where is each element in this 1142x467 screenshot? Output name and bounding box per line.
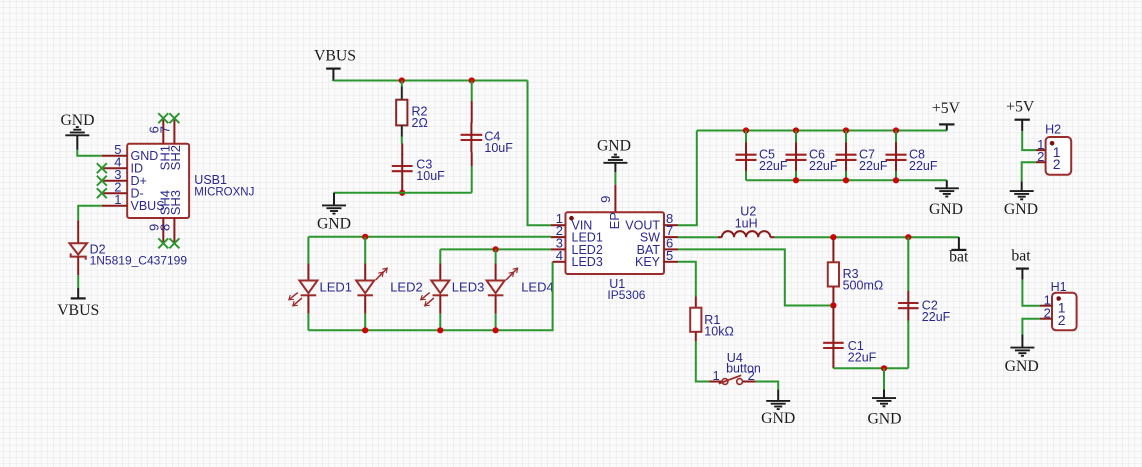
LED3 label — [452, 279, 485, 294]
H1 pin 2 — [1040, 305, 1066, 327]
U1 reference label — [607, 277, 645, 302]
node junction LED3-bottom — [437, 327, 443, 333]
H2 pin 2 — [1036, 149, 1061, 172]
capacitor C8 — [886, 131, 907, 181]
U1 pin 2 (LED1) — [551, 223, 566, 238]
node junction LED2-top — [362, 234, 368, 240]
svg-text:9: 9 — [598, 196, 613, 203]
node junction C4-top — [469, 77, 475, 83]
node junction C8-top — [893, 127, 899, 133]
svg-text:1: 1 — [712, 368, 719, 383]
resistor R3 — [828, 239, 839, 306]
USB1 pin 1 (VBUS) — [102, 192, 127, 207]
svg-text:500mΩ: 500mΩ — [843, 279, 884, 293]
U1 pin 9 (EP) — [598, 185, 616, 213]
ground GND (under H1) — [1005, 335, 1039, 375]
connector H2 body — [1046, 137, 1072, 175]
svg-text:SH3: SH3 — [168, 190, 183, 215]
switch U4 button — [709, 375, 756, 384]
svg-text:5: 5 — [666, 248, 673, 263]
wire SW to inductor — [678, 236, 718, 238]
wire H2 pin 2 to ground — [1022, 162, 1036, 181]
U1 pin 1 (VIN) — [551, 211, 566, 226]
U1 pin 4 (LED3) — [553, 248, 566, 263]
wire LED2 bottom drop — [364, 314, 366, 331]
wire LED4 top drop — [495, 249, 497, 263]
wire USB1 pin1 to diode D2 — [78, 206, 102, 221]
D2 labels — [90, 243, 188, 268]
svg-text:EP: EP — [607, 212, 622, 229]
svg-text:LED3: LED3 — [572, 255, 603, 269]
svg-text:KEY: KEY — [635, 255, 661, 269]
wire LED3 top drop — [439, 249, 441, 263]
capacitor C2 — [898, 237, 919, 368]
node junction C3-bottom — [399, 190, 405, 196]
svg-text:7: 7 — [158, 126, 173, 133]
ground GND (under C3) — [317, 193, 351, 233]
H1 reference label — [1051, 280, 1067, 294]
LED1 label — [320, 279, 353, 294]
wire D2 to VBUS flag — [77, 275, 79, 288]
diode D2 (schottky) — [69, 220, 87, 275]
svg-text:VBUS: VBUS — [57, 302, 99, 319]
net port bat (rail end) — [949, 237, 969, 265]
LED LED3 — [421, 264, 450, 314]
svg-text:10uF: 10uF — [484, 141, 513, 155]
wire LED1 top drop — [307, 237, 309, 264]
wire LED2 top drop — [364, 237, 366, 264]
ground GND (caps row) — [929, 180, 963, 218]
capacitor C6 — [786, 131, 807, 181]
wire LED4 bottom drop — [495, 314, 497, 331]
USB1 pin 4 (ID) — [102, 155, 127, 170]
U1 pin 7 (SW) — [664, 223, 678, 238]
wire GND rail under C3 — [334, 192, 472, 194]
svg-text:SH2: SH2 — [168, 145, 183, 170]
wire KEY to R1 — [678, 262, 696, 297]
C6 labels — [809, 148, 838, 174]
LED2 label — [390, 279, 423, 294]
C3 labels — [416, 158, 445, 184]
svg-text:1uH: 1uH — [735, 217, 758, 231]
R1 labels — [704, 313, 734, 339]
ground GND (EP pin of U1) — [597, 138, 631, 172]
svg-text:10kΩ: 10kΩ — [704, 325, 734, 339]
wire +5V flag to H2 pin 1 — [1022, 131, 1036, 150]
svg-text:22uF: 22uF — [848, 351, 877, 365]
svg-text:GND: GND — [1004, 201, 1038, 218]
svg-text:LED4: LED4 — [521, 279, 554, 294]
no-connect X on pin 6 — [158, 113, 168, 123]
USB1 shield pin names SH4 SH3 — [158, 190, 184, 215]
node junction R3-top — [830, 234, 836, 240]
H2 pin 1 — [1036, 137, 1061, 160]
LED LED1 — [289, 264, 318, 314]
svg-text:2: 2 — [1058, 312, 1066, 328]
no-connect X on pin 9 — [158, 238, 168, 248]
no-connect X on pin 3 — [97, 176, 107, 186]
svg-text:GND: GND — [867, 410, 901, 427]
svg-text:H2: H2 — [1045, 123, 1061, 137]
C2 labels — [922, 299, 951, 325]
svg-text:2: 2 — [1053, 156, 1061, 172]
wire +5V rail — [697, 130, 947, 132]
USB1 top pin 7 (SH2) — [158, 118, 175, 144]
resistor R2 — [396, 81, 407, 137]
wire bat flag to H1 pin 1 — [1022, 280, 1040, 306]
wire GND-flag to USB1 pin 5 — [77, 150, 102, 156]
resistor R1 — [690, 297, 701, 342]
svg-text:22uF: 22uF — [759, 159, 788, 173]
LED LED2 — [356, 264, 387, 314]
U2 labels — [735, 205, 758, 231]
USB1 pin 3 (D+) — [102, 167, 127, 182]
svg-text:22uF: 22uF — [809, 159, 838, 173]
svg-text:GND: GND — [597, 138, 631, 155]
net port bat (H1) — [1011, 248, 1031, 280]
capacitor C3 — [392, 144, 413, 193]
svg-text:bat: bat — [1011, 248, 1031, 265]
connector H1 body — [1052, 293, 1077, 331]
USB1 shield pin names SH1 SH2 — [158, 145, 184, 170]
USB1 pin 5 (GND) — [102, 142, 127, 157]
no-connect X on pin 4 — [97, 163, 107, 173]
R2 labels — [412, 105, 428, 131]
svg-text:LED2: LED2 — [390, 279, 423, 294]
wire R1 to button — [696, 341, 709, 381]
USB1 bottom pin 8 (SH3) — [158, 218, 175, 243]
no-connect X on pin 2 — [97, 188, 107, 198]
svg-text:2: 2 — [1044, 305, 1051, 320]
svg-text:2: 2 — [1037, 149, 1044, 164]
H2 reference label — [1045, 123, 1061, 137]
svg-text:H1: H1 — [1051, 280, 1067, 294]
ground GND (under H2) — [1004, 181, 1038, 218]
svg-text:button: button — [726, 362, 761, 376]
LED LED4 — [487, 264, 518, 314]
wire VIN drop — [528, 81, 552, 226]
no-connect X on pin 7 — [169, 113, 179, 123]
svg-text:GND: GND — [1005, 358, 1039, 375]
ground GND (under button) — [761, 390, 795, 428]
wire R2 to C3 — [401, 137, 403, 144]
wire LED bottom rail — [308, 262, 552, 331]
svg-text:8: 8 — [158, 224, 173, 231]
wire LED3 bottom drop — [439, 314, 441, 331]
capacitor C5 — [736, 131, 757, 181]
svg-text:GND: GND — [761, 410, 795, 427]
op-amp U1 IP5306 body — [566, 212, 665, 274]
ground GND (under C1 C2) — [867, 368, 901, 427]
svg-text:4: 4 — [556, 248, 563, 263]
wire EP ground — [614, 172, 616, 185]
wire VBUS rail — [333, 80, 527, 82]
svg-text:USB1: USB1 — [194, 173, 227, 187]
wire LED rail A (pin 2 net) — [308, 236, 551, 238]
node junction C8-bottom — [893, 177, 899, 183]
node junction C7-top — [843, 127, 849, 133]
USB1 top pin 6 (SH1) — [147, 118, 164, 144]
svg-text:+5V: +5V — [1006, 99, 1035, 116]
no-connect X on pin 8 — [169, 238, 179, 248]
power flag +5V (H2) — [1006, 99, 1035, 132]
U1 left pin names — [572, 218, 603, 269]
USB1 bottom pin 9 (SH4) — [147, 218, 164, 243]
C5 labels — [759, 148, 788, 174]
power flag +5V (rail) — [932, 100, 961, 131]
U4 labels — [726, 351, 761, 376]
node junction LED4-top — [493, 246, 499, 252]
svg-text:MICROXNJ: MICROXNJ — [194, 186, 254, 198]
U1 EP pin name — [607, 212, 622, 229]
wire C1-C2 bottom link — [833, 367, 908, 369]
wire inductor to bat port — [774, 236, 959, 238]
svg-text:1N5819_C437199: 1N5819_C437199 — [90, 253, 188, 267]
C7 labels — [859, 148, 888, 174]
svg-text:+5V: +5V — [932, 100, 961, 117]
node junction bottom-link GND — [881, 365, 887, 371]
svg-text:22uF: 22uF — [909, 159, 938, 173]
svg-text:bat: bat — [949, 248, 969, 265]
U1 right pin names — [625, 218, 660, 269]
power flag VBUS (top-middle) — [314, 48, 356, 81]
U1 pin 3 (LED2) — [551, 235, 566, 250]
capacitor C4 — [461, 81, 483, 193]
svg-text:10uF: 10uF — [416, 169, 445, 183]
C1 labels — [848, 339, 877, 365]
C4 labels — [484, 130, 513, 156]
svg-text:LED1: LED1 — [320, 279, 353, 294]
H1 pin 1 — [1040, 292, 1066, 315]
svg-text:2Ω: 2Ω — [412, 116, 428, 130]
node junction LED4-bottom — [493, 327, 499, 333]
wire button to ground — [756, 382, 779, 390]
capacitor C1 — [823, 306, 844, 369]
svg-text:IP5306: IP5306 — [607, 288, 645, 302]
wire LED rail B (pin 3 net) — [440, 248, 551, 250]
U1 pin 5 (KEY) — [664, 248, 678, 263]
svg-text:VBUS: VBUS — [314, 48, 356, 65]
node junction C5-top — [743, 127, 749, 133]
node junction R3-bottom C1-top — [830, 302, 836, 308]
power flag VBUS (bottom-left) — [57, 288, 99, 319]
USB1 pin 2 (D-) — [102, 180, 127, 195]
svg-text:GND: GND — [317, 216, 351, 233]
U1 pin 8 (VOUT) — [664, 211, 678, 226]
node junction C2-top — [905, 234, 911, 240]
svg-text:GND: GND — [929, 201, 963, 218]
USB1 pin names — [131, 149, 165, 213]
svg-text:1: 1 — [114, 192, 121, 207]
USB1 reference label — [194, 173, 254, 198]
C8 labels — [909, 148, 938, 174]
wire BAT to R3 bottom — [678, 249, 833, 305]
node junction C7-bottom — [843, 177, 849, 183]
U1 pin 6 (BAT) — [664, 235, 678, 250]
node junction LED2-bottom — [362, 327, 368, 333]
wire H1 pin 2 to ground — [1022, 319, 1040, 335]
U4 pin numbers — [712, 368, 754, 383]
power flag GND (USB shield, top-left) — [60, 112, 94, 150]
LED4 label — [521, 279, 554, 294]
wire LED1 bottom drop — [307, 314, 309, 331]
node junction R2-top — [399, 77, 405, 83]
node junction C6-top — [793, 127, 799, 133]
svg-text:LED3: LED3 — [452, 279, 485, 294]
wire VOUT to +5V rail — [678, 131, 697, 226]
inductor U2 1uH — [718, 231, 775, 237]
svg-text:22uF: 22uF — [859, 159, 888, 173]
svg-text:22uF: 22uF — [922, 310, 951, 324]
wire caps bottom rail — [746, 179, 947, 181]
connector USB1 MICROXNJ body — [127, 144, 189, 218]
capacitor C7 — [836, 131, 857, 181]
R3 labels — [843, 267, 884, 293]
node junction C6-bottom — [793, 177, 799, 183]
